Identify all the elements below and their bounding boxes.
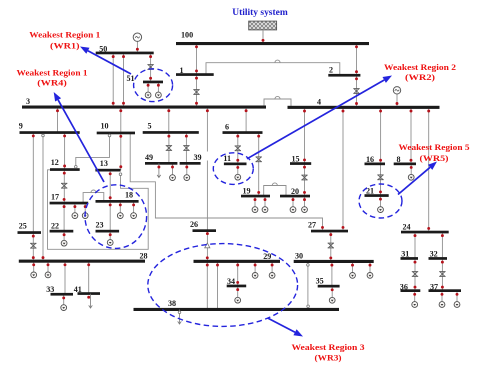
junction dots bus 20 row <box>292 191 306 201</box>
svg-text:39: 39 <box>194 153 202 162</box>
junction dots bus 25 row <box>32 235 35 238</box>
label weakest region 5 WR5 <box>399 142 470 163</box>
svg-text:(WR2): (WR2) <box>405 72 435 82</box>
region ellipse WR2 around bus 11 <box>213 153 253 185</box>
bus 12 bar <box>50 168 80 171</box>
svg-text:28: 28 <box>140 252 148 261</box>
wire bus 30 load lead b <box>369 262 371 273</box>
load bus 18 b <box>131 213 137 219</box>
svg-text:49: 49 <box>145 153 153 162</box>
wire bus 15 to bus 20 <box>304 164 306 197</box>
label weakest region 3 WR3 <box>292 342 365 363</box>
junction dots bus 50 row <box>112 48 152 58</box>
bus 30 bar <box>294 260 374 263</box>
svg-text:(WR5): (WR5) <box>420 153 449 163</box>
wire bus 3 to bus 9 <box>57 107 59 133</box>
load bus 35 <box>329 297 335 303</box>
junction dots bus 23 row <box>109 233 112 236</box>
wire bus 10 to bus 27 tie <box>130 133 322 231</box>
transformer T 15-20 <box>301 175 307 180</box>
junction dots bus 9 row <box>32 134 66 137</box>
wire bus 16 to bus 21 <box>380 164 382 196</box>
transformer T 32-37 <box>439 272 445 277</box>
wire bus 4 to bus 15 <box>304 107 306 163</box>
wire bus 29 load lead b <box>271 261 273 272</box>
bus 25 bar <box>18 231 42 234</box>
svg-text:50: 50 <box>99 44 107 53</box>
bus 35 bar <box>318 285 340 288</box>
open switch circle above bus 38 <box>307 305 310 308</box>
wire bus 3 to bus 6 <box>245 107 247 133</box>
junction dots bus 32 row <box>441 261 444 264</box>
wire bus 24 to bus 32 <box>441 232 443 259</box>
junction dots bus 1 row <box>195 69 198 79</box>
wire bus 25 to bus 28 <box>32 233 34 262</box>
wire bus 50 to bus 3 feeder b <box>123 53 125 107</box>
wire crossover bump on 19-20 tie <box>272 183 277 186</box>
svg-text:26: 26 <box>190 220 198 229</box>
svg-text:1: 1 <box>180 66 184 75</box>
wire bus 22 load lead <box>63 231 65 240</box>
load bus 30 a <box>350 273 356 279</box>
wire bus 9 to bus 28 tie <box>42 133 44 262</box>
wire bus 17 load lead b <box>84 203 86 213</box>
svg-text:9: 9 <box>19 121 23 130</box>
bus 28 bar <box>19 260 145 263</box>
arrow to WR3 label <box>268 318 303 337</box>
wire bus 29 to bus 38 b <box>217 261 219 309</box>
wire bus 51 load lead a <box>147 82 149 92</box>
load bus 28 b <box>45 272 51 278</box>
wire bus 19 to bus 20 tie <box>264 186 286 197</box>
svg-text:(WR1): (WR1) <box>50 41 80 51</box>
arrow to WR2 label <box>247 76 392 159</box>
load arrow below bus 49 <box>157 163 161 177</box>
junction dots bus 51 row <box>147 77 160 87</box>
bus 27 bar <box>311 230 348 233</box>
svg-text:51: 51 <box>127 74 135 83</box>
wire bus 28 to bus 33 <box>64 261 66 294</box>
svg-text:31: 31 <box>401 250 409 259</box>
load bus 19 b <box>262 207 268 213</box>
wire bus 29 load lead a <box>254 261 256 272</box>
bus 17 bar <box>50 202 89 205</box>
wire bus 28 load lead a <box>33 261 35 272</box>
bus 10 bar <box>97 132 135 135</box>
load bus 21 <box>378 207 384 213</box>
svg-text:(WR3): (WR3) <box>315 353 342 363</box>
wire bus 12 to bus 17 <box>63 170 65 204</box>
svg-text:Weakest Region 5: Weakest Region 5 <box>399 142 470 152</box>
junction dots bus 35 row <box>331 288 334 291</box>
svg-text:4: 4 <box>317 98 321 107</box>
wire bus 37 load lead a <box>441 291 443 302</box>
load bus 49 <box>170 175 176 181</box>
junction dots bus 2 row <box>355 70 358 80</box>
svg-text:19: 19 <box>243 187 251 196</box>
svg-text:2: 2 <box>329 65 333 74</box>
transformer T 5-49 <box>166 146 172 151</box>
svg-text:Weakest Region 3: Weakest Region 3 <box>292 342 365 352</box>
wire bus 20 load lead a <box>292 196 294 207</box>
svg-text:25: 25 <box>19 222 27 231</box>
wire bus 17 load lead a <box>74 203 76 213</box>
wire bus 4 to bus 16 <box>380 107 382 164</box>
load bus 19 a <box>252 207 258 213</box>
load bus 18 a <box>117 213 123 219</box>
load bus 39 <box>184 175 190 181</box>
bus 19 bar <box>241 195 270 198</box>
junction dots bus 17 row <box>63 198 66 208</box>
wire bus 4 to bus 27 <box>342 107 344 231</box>
junction dots bus 100 row <box>195 39 358 48</box>
wire bus 4 to bus 24 <box>428 107 430 232</box>
svg-text:20: 20 <box>291 187 299 196</box>
junction dots bus 24 row <box>414 227 444 237</box>
wire bus 9 to bus 25 <box>32 133 34 233</box>
svg-text:11: 11 <box>223 154 231 163</box>
svg-text:38: 38 <box>168 299 176 308</box>
wire bus 50 to bus 51 <box>150 53 152 82</box>
junction dots bus 28 row <box>32 256 90 266</box>
open switch circle below bus 9 <box>42 134 45 137</box>
svg-text:13: 13 <box>100 159 108 168</box>
svg-text:(WR4): (WR4) <box>37 78 67 88</box>
load bus 23 <box>107 240 113 246</box>
bus 18 bar <box>96 200 139 203</box>
wire generator G2 to bus 4 <box>396 94 398 107</box>
bus 51 bar <box>143 81 163 84</box>
wire bus 17 to bus 18 tie <box>83 193 104 203</box>
region ellipse WR3 around buses 29 34 38 <box>148 244 298 327</box>
load bus 20 b <box>302 207 308 213</box>
wire bus 4 to bus 8 <box>410 107 412 164</box>
load bus 51 b <box>156 92 162 98</box>
wire bus 13 to bus 18 <box>109 170 111 201</box>
wire bus 23 load lead <box>109 231 111 240</box>
wire bus 26 to bus 29 <box>206 231 208 262</box>
wire bus 32 to bus 37 <box>441 259 443 291</box>
bus 33 bar <box>51 293 74 296</box>
wire bus 1 to bus 3 <box>196 75 198 108</box>
open switch circle below bus 13 <box>119 173 122 176</box>
wire bus 36 load lead <box>414 291 416 302</box>
junction dots bus 30 row <box>329 256 371 266</box>
transformer T 12-17 <box>61 183 67 188</box>
wire generator G1 to bus 50 <box>136 41 138 53</box>
svg-text:18: 18 <box>125 191 133 200</box>
junction dots bus 37 row <box>441 286 459 296</box>
svg-text:10: 10 <box>101 122 109 131</box>
transformer T 6-19 <box>256 157 262 162</box>
junction dots bus 4 row <box>303 102 430 112</box>
region ellipse WR1 around bus 51 <box>134 69 173 102</box>
svg-text:34: 34 <box>227 277 235 286</box>
junction dots bus 26 row <box>206 232 209 235</box>
wire crossover bump on 3-4 tie <box>275 96 280 99</box>
junction dots bus 41 row <box>87 296 90 299</box>
open switch circle below bus 30 <box>307 264 310 267</box>
svg-text:6: 6 <box>225 123 229 132</box>
bus 21 bar <box>365 194 389 197</box>
wire bus 2 to bus 4 <box>356 75 358 107</box>
bus 29 bar <box>194 260 281 263</box>
load bus 20 a <box>290 207 296 213</box>
junction dots bus 29 row <box>206 256 274 266</box>
bus 38 bar <box>134 308 340 311</box>
wire bus 10 to bus 13 <box>120 133 122 170</box>
wire bus 35 load lead <box>331 286 333 297</box>
bus 2 bar <box>328 74 360 77</box>
load arrow below bus 41 <box>89 294 93 308</box>
wire bus 33 load lead <box>63 294 65 304</box>
transformer T 25-28 <box>30 243 36 248</box>
svg-text:22: 22 <box>51 222 59 231</box>
wire bus 21 load lead <box>380 196 382 207</box>
junction dots bus 34 row <box>236 281 239 291</box>
svg-text:15: 15 <box>292 155 300 164</box>
load bus 11 <box>235 174 241 180</box>
bus 22 bar <box>50 230 74 233</box>
wire bus 34 load lead <box>237 286 239 297</box>
svg-text:41: 41 <box>74 285 82 294</box>
junction dots bus 36 row <box>413 286 416 296</box>
utility source hatched box <box>249 21 277 30</box>
svg-text:Weakest Region 1: Weakest Region 1 <box>17 68 88 78</box>
bus 34 bar <box>227 285 247 288</box>
junction dots bus 15 row <box>303 158 306 168</box>
bus 20 bar <box>280 195 310 198</box>
svg-text:16: 16 <box>366 155 374 164</box>
svg-text:Utility system: Utility system <box>232 7 288 18</box>
transformer T 27-30 <box>328 243 334 248</box>
wire bus 20 load lead b <box>304 196 306 207</box>
bus 6 bar <box>223 131 263 134</box>
junction dots bus 39 row <box>185 166 188 169</box>
bus 3 bar <box>22 106 266 109</box>
region ellipse WR5 around bus 21 <box>359 184 402 218</box>
bus 36 bar <box>401 289 421 292</box>
open switch circle on bus 38 drop <box>178 311 181 314</box>
wire bus 39 load lead <box>186 163 188 174</box>
bus 49 bar <box>145 162 177 165</box>
wire bus 3 to bus 26 feeder upper <box>206 107 208 152</box>
junction dots bus 22 row <box>63 233 66 236</box>
wire bus 19 load lead b <box>264 196 266 207</box>
wire bus 30 to bus 35 <box>331 262 333 287</box>
svg-text:27: 27 <box>308 221 316 230</box>
svg-text:33: 33 <box>46 285 54 294</box>
load bus 37 b <box>454 302 460 308</box>
svg-text:100: 100 <box>181 31 193 40</box>
bus 1 bar <box>176 73 214 76</box>
arrow to WR1 label <box>80 47 131 75</box>
wire bus 30 to bus 38 tie <box>307 263 309 306</box>
junction dots bus 10 row <box>119 135 122 138</box>
wire bus 13 to bus 12 loop tie <box>48 170 149 250</box>
wire bus 100 to bus 2 <box>356 43 358 75</box>
transformer T 16-21 <box>377 175 383 180</box>
load bus 36 <box>412 302 418 308</box>
bus 13 bar <box>95 169 120 172</box>
wire bus 9 to bus 12 <box>64 133 66 170</box>
load bus 30 b <box>367 273 373 279</box>
load bus 34 <box>235 297 241 303</box>
svg-text:12: 12 <box>51 158 59 167</box>
transformer T 6-11 <box>235 146 241 151</box>
svg-text:3: 3 <box>26 97 30 106</box>
wire bus 18 to bus 23 <box>109 201 111 231</box>
svg-text:Weakest Region 2: Weakest Region 2 <box>384 62 456 72</box>
load bus 29 b <box>269 273 275 279</box>
bus 4 bar <box>288 106 440 109</box>
region ellipse WR4 around buses 18 23 <box>85 185 147 249</box>
wire bus 28 to bus 41 <box>88 261 90 293</box>
junction dots bus 16 row <box>379 159 382 162</box>
junction dots bus 17 loads <box>73 205 86 208</box>
bus 31 bar <box>401 257 419 260</box>
bus 23 bar <box>96 230 120 233</box>
junction dots bus 11 row <box>236 159 239 169</box>
wire bus 5 to bus 49 <box>168 132 170 163</box>
junction dots bus 33 row <box>62 296 65 299</box>
junction dots bus 12 row <box>63 165 66 175</box>
wire bus 18 load lead b <box>133 201 135 212</box>
load arrow below bus 38 <box>178 310 182 325</box>
wire bus 24 to bus 31 <box>414 232 416 259</box>
bus 39 bar <box>180 162 201 165</box>
bus 15 bar <box>290 162 311 165</box>
svg-text:5: 5 <box>148 122 152 131</box>
wire utility to bus 100 <box>262 30 264 43</box>
bus 24 bar <box>401 231 449 234</box>
arrow to WR5 label <box>398 162 437 195</box>
bus 16 bar <box>365 163 386 166</box>
wire bus 5 to bus 39 <box>185 132 187 163</box>
generator G1 <box>133 33 141 41</box>
junction dots bus 49 row <box>157 166 174 169</box>
svg-text:29: 29 <box>263 252 271 261</box>
load bus 37 a <box>439 302 445 308</box>
junction dots bus 6 row <box>236 135 260 138</box>
wire crossover bump on 17-18 tie <box>91 190 96 193</box>
wire bus 100 to bus 1 <box>196 43 198 75</box>
wire bus 6 to bus 11 <box>237 133 239 164</box>
wire crossover bump on 1-2 tie <box>275 60 280 63</box>
transformer T 31-36 <box>412 272 418 277</box>
wire bus 50 to bus 3 feeder a <box>112 53 114 107</box>
wire bus 51 load lead b <box>157 82 159 92</box>
bus 32 bar <box>429 257 448 260</box>
wire bus 31 to bus 36 <box>414 259 416 291</box>
load bus 8 <box>408 174 414 180</box>
svg-text:Weakest Region 1: Weakest Region 1 <box>29 30 100 40</box>
svg-text:37: 37 <box>430 282 438 291</box>
label weakest region 2 WR2 <box>384 62 456 82</box>
wire bus 17 to bus 22 <box>63 203 65 231</box>
open switch circle above bus 12 <box>75 166 78 169</box>
load bus 17 b <box>82 213 88 219</box>
transformer T 50-51 <box>147 65 153 70</box>
svg-text:30: 30 <box>295 252 303 261</box>
wire bus 3 to bus 5 <box>168 107 170 132</box>
load bus 17 a <box>72 213 78 219</box>
svg-text:23: 23 <box>96 221 104 230</box>
load bus 33 <box>61 305 67 311</box>
label weakest region 1 WR1 <box>29 30 100 51</box>
svg-text:35: 35 <box>316 277 324 286</box>
junction dots bus 5 row <box>167 135 187 138</box>
wire bus 28 load lead b <box>47 261 49 272</box>
bus 37 bar <box>429 289 462 292</box>
wire bus 29 to bus 38 a <box>206 261 208 309</box>
wire bus 10 to bus 12 tie <box>76 134 110 170</box>
wire bus 3 to bus 4 tie <box>264 99 291 107</box>
bus 41 bar <box>78 292 101 295</box>
load bus 29 a <box>252 273 258 279</box>
load bus 51 a <box>145 92 151 98</box>
open switch circle below bus 10 <box>108 134 111 137</box>
transformer T 2-4 <box>353 89 359 94</box>
bus 11 bar <box>224 163 247 166</box>
bus 5 bar <box>143 131 199 134</box>
label weakest region 1 WR4 <box>17 68 88 88</box>
wire bus 6 to bus 19 <box>258 133 260 197</box>
svg-text:32: 32 <box>430 250 438 259</box>
arrow to WR4 label <box>54 92 104 182</box>
wire bus 8 load lead <box>410 164 412 175</box>
wire bus 37 load lead b <box>456 291 458 302</box>
svg-text:8: 8 <box>397 155 401 164</box>
wire bus 3 to bus 10 <box>120 107 122 133</box>
bus 100 bar <box>176 42 369 45</box>
junction dots bus 27 row <box>321 226 344 236</box>
wire bus 29 to bus 34 <box>237 261 239 286</box>
junction dots bus 31 row <box>414 261 417 264</box>
wire bus 11 load lead <box>237 164 239 174</box>
junction dots bus 8 row <box>410 159 413 169</box>
bus 9 bar <box>20 131 80 134</box>
wire bus 49 load lead <box>172 163 174 174</box>
bus 8 bar <box>394 163 416 166</box>
wire bus 19 load lead a <box>254 196 256 207</box>
junction dots bus 18 row <box>109 196 135 206</box>
load bus 22 <box>61 240 67 246</box>
wire bus 1 to bus 2 tie <box>206 63 340 75</box>
wire bus 3 to bus 26 feeder lower <box>206 161 208 231</box>
junction dots bus 21 row <box>379 190 382 200</box>
wire bus 30 load lead a <box>352 262 354 273</box>
wire bus 27 to bus 30 <box>330 231 332 262</box>
svg-text:36: 36 <box>400 282 408 291</box>
transformer T 1-3 <box>193 90 199 95</box>
generator G2 <box>393 87 400 94</box>
open triangle switch 26-29 <box>205 243 210 248</box>
svg-text:24: 24 <box>403 223 411 232</box>
wire bus 18 load lead a <box>119 201 121 212</box>
svg-text:17: 17 <box>51 193 59 202</box>
bus 50 bar <box>96 52 154 55</box>
bus 26 bar <box>193 229 217 232</box>
junction dots bus 19 row <box>254 191 267 201</box>
junction dots bus 3 row <box>56 102 248 112</box>
junction dots bus 13 row <box>109 165 123 175</box>
transformer T 5-39 <box>183 146 189 151</box>
load bus 28 a <box>31 272 37 278</box>
